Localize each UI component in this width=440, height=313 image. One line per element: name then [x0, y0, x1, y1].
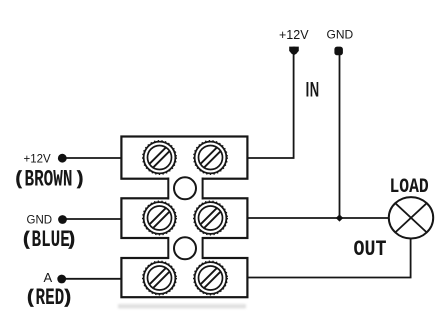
wire row 3 from terminal block to lamp bottom: [246, 239, 411, 278]
node GND left terminal dot: [58, 215, 67, 224]
svg-text:(: (: [21, 230, 32, 251]
screw terminal 1A: [143, 141, 177, 175]
node +12V left terminal dot: [58, 154, 67, 163]
label (RED): [25, 285, 73, 310]
svg-text:GND: GND: [27, 215, 53, 227]
screw terminal 1B: [194, 141, 228, 175]
svg-text:A: A: [44, 270, 53, 285]
svg-text:+12V: +12V: [24, 154, 52, 166]
node A left terminal dot: [57, 275, 66, 284]
wire A output left (row 3): [64, 278, 123, 280]
wire row 2 from terminal block to lamp: [246, 217, 390, 219]
svg-text:): ): [62, 288, 73, 309]
svg-text:OUT: OUT: [354, 237, 387, 262]
node +12V supply pin: [289, 47, 299, 56]
screw terminal 2B: [194, 201, 228, 235]
node junction GND/OUT: [336, 214, 343, 221]
wire GND input left (row 2): [64, 218, 123, 220]
screw terminal 2A: [143, 201, 177, 235]
svg-text:(: (: [25, 288, 36, 309]
svg-text:+12V: +12V: [279, 28, 309, 42]
node GND supply pin: [334, 47, 343, 56]
lamp LOAD symbol: [389, 197, 433, 238]
svg-text:GND: GND: [327, 28, 354, 42]
svg-text:LOAD: LOAD: [390, 175, 429, 198]
label (BLUE): [21, 227, 77, 252]
screw terminal 3B: [194, 261, 228, 295]
terminal block section 1 body: [121, 137, 247, 179]
mounting hole 1: [174, 177, 196, 199]
svg-text:BROWN: BROWN: [25, 167, 73, 192]
wire GND from supply pin down to junction: [339, 53, 341, 218]
svg-text:IN: IN: [306, 77, 320, 101]
terminal block neck 1 (between section 1 and 2): [168, 176, 202, 201]
screw terminal 3A: [143, 261, 177, 295]
terminal block section 2 body: [121, 198, 247, 238]
terminal block neck 2 (between section 2 and 3): [168, 236, 202, 260]
scan smudge under terminal block: [118, 304, 246, 309]
svg-text:RED: RED: [36, 285, 65, 310]
svg-text:): ): [66, 230, 77, 251]
label (BROWN): [14, 167, 86, 192]
terminal block section 3 body: [121, 258, 247, 297]
svg-text:BLUE: BLUE: [32, 227, 70, 252]
mounting hole 2: [174, 237, 196, 259]
wire +12V input left (row 1): [64, 157, 123, 159]
svg-text:): ): [75, 170, 86, 190]
svg-text:(: (: [14, 170, 25, 190]
wire +12V from terminal block row 1 up to +12V supply pin: [246, 53, 294, 158]
